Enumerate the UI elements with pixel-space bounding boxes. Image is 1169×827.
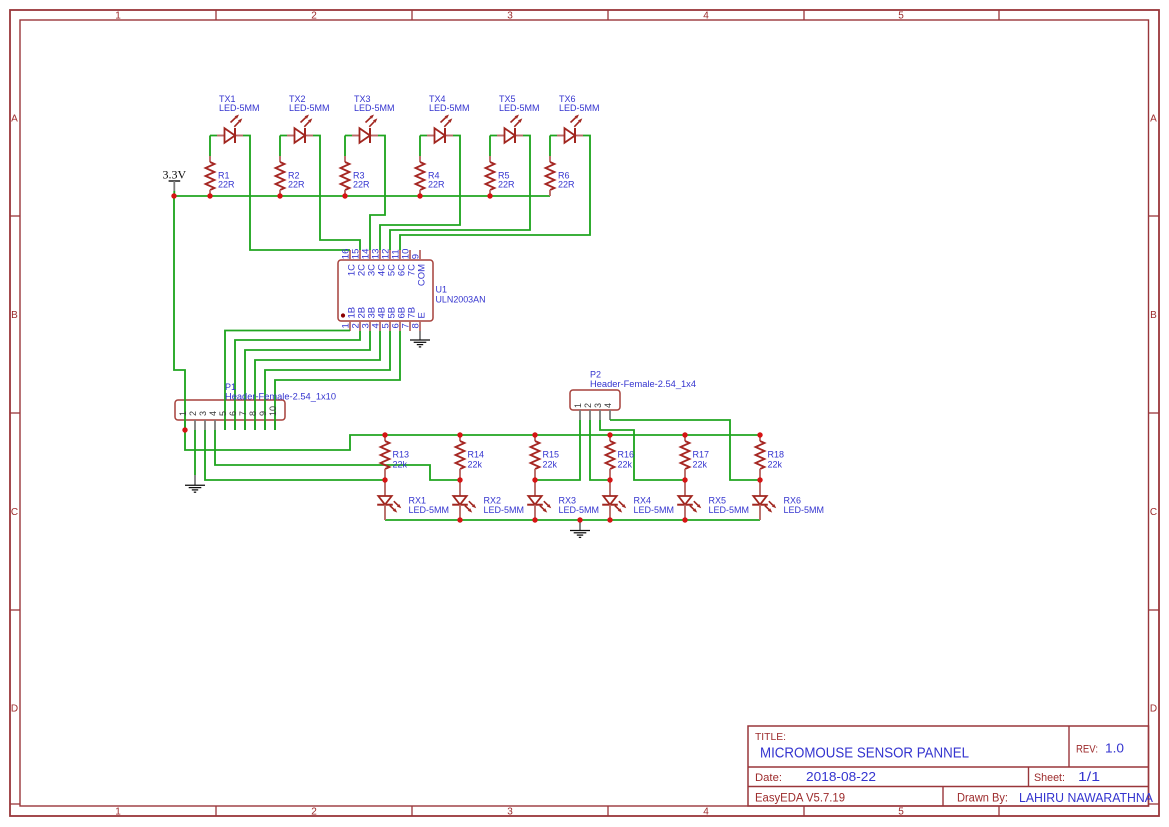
svg-text:22k: 22k bbox=[693, 459, 708, 469]
ground at RX rail bbox=[570, 520, 590, 537]
wire TX2 anode bbox=[280, 136, 287, 157]
resistor R5 bbox=[486, 156, 495, 196]
svg-text:U1: U1 bbox=[436, 285, 448, 295]
wire U1 2B to P1 pin 6 bbox=[235, 331, 360, 430]
svg-text:LED-5MM: LED-5MM bbox=[484, 505, 525, 515]
svg-text:2: 2 bbox=[583, 403, 593, 408]
ruler ticks right bbox=[1149, 216, 1160, 804]
wire TX4 anode bbox=[420, 136, 427, 157]
wire TX1 anode bbox=[210, 136, 217, 157]
svg-text:4: 4 bbox=[208, 411, 218, 416]
svg-text:3: 3 bbox=[507, 11, 513, 22]
svg-text:B: B bbox=[1150, 310, 1157, 321]
svg-text:Date:: Date: bbox=[755, 772, 782, 784]
resistor R16 bbox=[606, 435, 615, 480]
U1 top pin numbers bbox=[340, 249, 421, 260]
svg-text:1/1: 1/1 bbox=[1078, 770, 1100, 784]
svg-text:5: 5 bbox=[218, 411, 228, 416]
wire TX6 cathode to U1 pin bbox=[400, 136, 590, 251]
ruler ticks left bbox=[10, 216, 20, 804]
P1 pin stubs bbox=[185, 420, 275, 430]
ruler row labels left bbox=[11, 114, 18, 715]
U1 top pin names bbox=[347, 264, 428, 286]
svg-text:RX6: RX6 bbox=[784, 495, 802, 505]
svg-text:C: C bbox=[1150, 507, 1157, 518]
LED TX5 bbox=[497, 115, 523, 144]
connector P1 body bbox=[175, 400, 285, 420]
svg-text:LAHIRU NAWARATHNA: LAHIRU NAWARATHNA bbox=[1019, 790, 1153, 805]
svg-text:LED-5MM: LED-5MM bbox=[499, 103, 540, 113]
LED RX6 bbox=[752, 480, 776, 520]
svg-text:RX2: RX2 bbox=[484, 495, 502, 505]
svg-text:2: 2 bbox=[188, 411, 198, 416]
wire U1 5B to P1 pin 9 bbox=[265, 331, 390, 430]
resistor R14 bbox=[456, 435, 465, 480]
svg-text:5: 5 bbox=[898, 807, 904, 818]
svg-text:10: 10 bbox=[268, 406, 278, 416]
svg-text:RX1: RX1 bbox=[409, 495, 427, 505]
ruler row labels right bbox=[1150, 114, 1157, 715]
svg-text:3: 3 bbox=[198, 411, 208, 416]
svg-text:LED-5MM: LED-5MM bbox=[409, 505, 450, 515]
svg-text:R15: R15 bbox=[543, 449, 560, 459]
LED TX1 bbox=[217, 115, 243, 144]
svg-text:D: D bbox=[1150, 704, 1157, 715]
resistor R4 bbox=[416, 156, 425, 196]
junction dots 3.3V rail bbox=[171, 193, 492, 198]
U1 bottom pin names bbox=[347, 307, 428, 319]
resistor R3 bbox=[341, 156, 350, 196]
LED TX6 bbox=[557, 115, 583, 144]
svg-text:D: D bbox=[11, 704, 18, 715]
resistor R1 bbox=[206, 156, 215, 196]
wire U1 1B to P1 pin 5 bbox=[225, 331, 350, 431]
svg-text:LED-5MM: LED-5MM bbox=[289, 103, 330, 113]
svg-text:C: C bbox=[11, 507, 18, 518]
wire P2 pin4 to sensor node 6 bbox=[610, 420, 760, 480]
svg-text:2: 2 bbox=[311, 11, 317, 22]
wire TX4 cathode to U1 pin bbox=[380, 136, 460, 251]
resistor R2 bbox=[276, 156, 285, 196]
svg-text:Drawn By:: Drawn By: bbox=[957, 793, 1008, 805]
wire TX5 cathode to U1 pin bbox=[390, 136, 530, 251]
svg-text:EasyEDA V5.7.19: EasyEDA V5.7.19 bbox=[755, 793, 845, 805]
svg-text:LED-5MM: LED-5MM bbox=[634, 505, 675, 515]
svg-text:8: 8 bbox=[410, 323, 421, 328]
svg-text:1: 1 bbox=[115, 807, 121, 818]
wire TX3 anode bbox=[345, 136, 352, 157]
connector P2 body bbox=[570, 390, 620, 410]
junction dots sensor nodes bbox=[382, 477, 762, 482]
ground at P1 pin2 bbox=[185, 475, 205, 492]
svg-text:RX4: RX4 bbox=[634, 495, 652, 505]
svg-text:Header-Female-2.54_1x10: Header-Female-2.54_1x10 bbox=[225, 391, 336, 401]
svg-text:4: 4 bbox=[603, 403, 613, 408]
svg-text:TITLE:: TITLE: bbox=[755, 731, 786, 743]
svg-text:E: E bbox=[417, 312, 428, 318]
wire TX6 anode bbox=[550, 136, 557, 157]
svg-text:Sheet:: Sheet: bbox=[1034, 772, 1065, 784]
svg-text:22k: 22k bbox=[768, 459, 783, 469]
wire U1 4B to P1 pin 8 bbox=[255, 331, 380, 430]
svg-text:COM: COM bbox=[417, 264, 428, 286]
svg-text:LED-5MM: LED-5MM bbox=[559, 103, 600, 113]
svg-text:MICROMOUSE SENSOR PANNEL: MICROMOUSE SENSOR PANNEL bbox=[760, 746, 969, 762]
power flag 3.3V bbox=[162, 168, 186, 196]
LED RX2 bbox=[452, 480, 476, 520]
op-amp U1 ULN2003AN body bbox=[338, 260, 433, 321]
svg-text:4: 4 bbox=[703, 807, 709, 818]
svg-text:2: 2 bbox=[311, 807, 317, 818]
wire P1 pin4 to sensor node 2 bbox=[215, 430, 460, 480]
svg-text:LED-5MM: LED-5MM bbox=[559, 505, 600, 515]
resistor R18 bbox=[756, 435, 765, 480]
svg-text:22k: 22k bbox=[618, 459, 633, 469]
resistor R15 bbox=[531, 435, 540, 480]
svg-text:R18: R18 bbox=[768, 449, 785, 459]
svg-text:5: 5 bbox=[898, 11, 904, 22]
ground at U1 pin E bbox=[410, 331, 430, 347]
P2 pin stubs bbox=[580, 410, 610, 420]
ruler column labels bottom bbox=[115, 807, 904, 818]
svg-text:RX5: RX5 bbox=[709, 495, 727, 505]
LED TX4 bbox=[427, 115, 453, 144]
svg-text:1.0: 1.0 bbox=[1105, 742, 1124, 756]
U1 pin1 marker bbox=[341, 313, 345, 317]
wire RX ground rail bbox=[385, 519, 760, 521]
svg-text:22k: 22k bbox=[543, 459, 558, 469]
junction dots ground rail bbox=[457, 517, 687, 522]
wire TX5 anode bbox=[490, 136, 497, 157]
wire P1 pin3 to sensor node 1 bbox=[205, 430, 385, 480]
wire P1 pin2 to ground bbox=[194, 430, 196, 475]
svg-text:22k: 22k bbox=[393, 459, 408, 469]
svg-text:REV:: REV: bbox=[1076, 744, 1098, 756]
svg-text:1: 1 bbox=[115, 11, 121, 22]
svg-text:22k: 22k bbox=[468, 459, 483, 469]
resistor R6 bbox=[546, 156, 555, 196]
title block frame bbox=[748, 726, 1149, 806]
wire TX3 cathode to U1 pin bbox=[370, 136, 385, 251]
LED RX4 bbox=[602, 480, 626, 520]
U1 bottom pin stubs bbox=[350, 321, 420, 331]
LED RX1 bbox=[377, 480, 401, 520]
LED TX3 bbox=[352, 115, 378, 144]
svg-text:8: 8 bbox=[248, 411, 258, 416]
svg-text:22R: 22R bbox=[218, 179, 235, 189]
ruler ticks top bbox=[216, 10, 999, 20]
wire TX1 cathode to U1 pin bbox=[243, 136, 350, 251]
U1 top pin stubs bbox=[350, 250, 420, 260]
junction dot P1 pin1 bbox=[182, 427, 187, 432]
svg-text:LED-5MM: LED-5MM bbox=[429, 103, 470, 113]
svg-text:7: 7 bbox=[238, 411, 248, 416]
svg-text:1: 1 bbox=[178, 411, 188, 416]
LED RX5 bbox=[677, 480, 701, 520]
svg-text:B: B bbox=[11, 310, 18, 321]
LED TX2 bbox=[287, 115, 313, 144]
svg-text:ULN2003AN: ULN2003AN bbox=[436, 294, 486, 304]
P1 pin numbers bbox=[178, 406, 278, 416]
wire P2 pin3 to sensor node 5 bbox=[600, 420, 685, 480]
U1 bottom pin numbers bbox=[340, 323, 421, 328]
wire TX2 cathode to U1 pin bbox=[313, 136, 360, 251]
P2 pin numbers bbox=[573, 403, 613, 408]
svg-text:22R: 22R bbox=[428, 179, 445, 189]
svg-text:R14: R14 bbox=[468, 449, 485, 459]
resistor R17 bbox=[681, 435, 690, 480]
svg-text:3: 3 bbox=[593, 403, 603, 408]
svg-text:22R: 22R bbox=[288, 179, 305, 189]
svg-text:A: A bbox=[1150, 114, 1157, 125]
svg-text:4: 4 bbox=[703, 11, 709, 22]
wire 3.3V rail bbox=[174, 195, 550, 197]
junction dots sensor supply rail bbox=[382, 432, 762, 437]
svg-text:LED-5MM: LED-5MM bbox=[784, 505, 825, 515]
ruler column labels top bbox=[115, 11, 904, 22]
svg-text:LED-5MM: LED-5MM bbox=[219, 103, 260, 113]
wire 3.3V to P1 pin1 and sensor supply rail bbox=[174, 196, 760, 450]
svg-text:3.3V: 3.3V bbox=[162, 168, 186, 182]
svg-text:22R: 22R bbox=[353, 179, 370, 189]
svg-text:R13: R13 bbox=[393, 449, 410, 459]
svg-text:LED-5MM: LED-5MM bbox=[354, 103, 395, 113]
wire U1 3B to P1 pin 7 bbox=[245, 331, 370, 430]
ruler ticks bottom bbox=[216, 806, 999, 816]
svg-text:Header-Female-2.54_1x4: Header-Female-2.54_1x4 bbox=[590, 379, 696, 389]
svg-text:22R: 22R bbox=[498, 179, 515, 189]
svg-text:R17: R17 bbox=[693, 449, 710, 459]
svg-text:9: 9 bbox=[410, 254, 421, 259]
svg-text:LED-5MM: LED-5MM bbox=[709, 505, 750, 515]
svg-text:1: 1 bbox=[573, 403, 583, 408]
svg-text:A: A bbox=[11, 114, 18, 125]
svg-text:22R: 22R bbox=[558, 179, 575, 189]
wire P2 pin1 to sensor node 3 bbox=[535, 420, 580, 480]
LED RX3 bbox=[527, 480, 551, 520]
wire U1 6B to P1 pin 10 bbox=[275, 331, 400, 430]
svg-text:RX3: RX3 bbox=[559, 495, 577, 505]
svg-text:9: 9 bbox=[258, 411, 268, 416]
resistor R13 bbox=[381, 435, 390, 480]
svg-text:R16: R16 bbox=[618, 449, 635, 459]
svg-text:2018-08-22: 2018-08-22 bbox=[806, 770, 876, 784]
svg-text:3: 3 bbox=[507, 807, 513, 818]
svg-text:6: 6 bbox=[228, 411, 238, 416]
wire P2 pin2 to sensor node 4 bbox=[590, 420, 610, 480]
